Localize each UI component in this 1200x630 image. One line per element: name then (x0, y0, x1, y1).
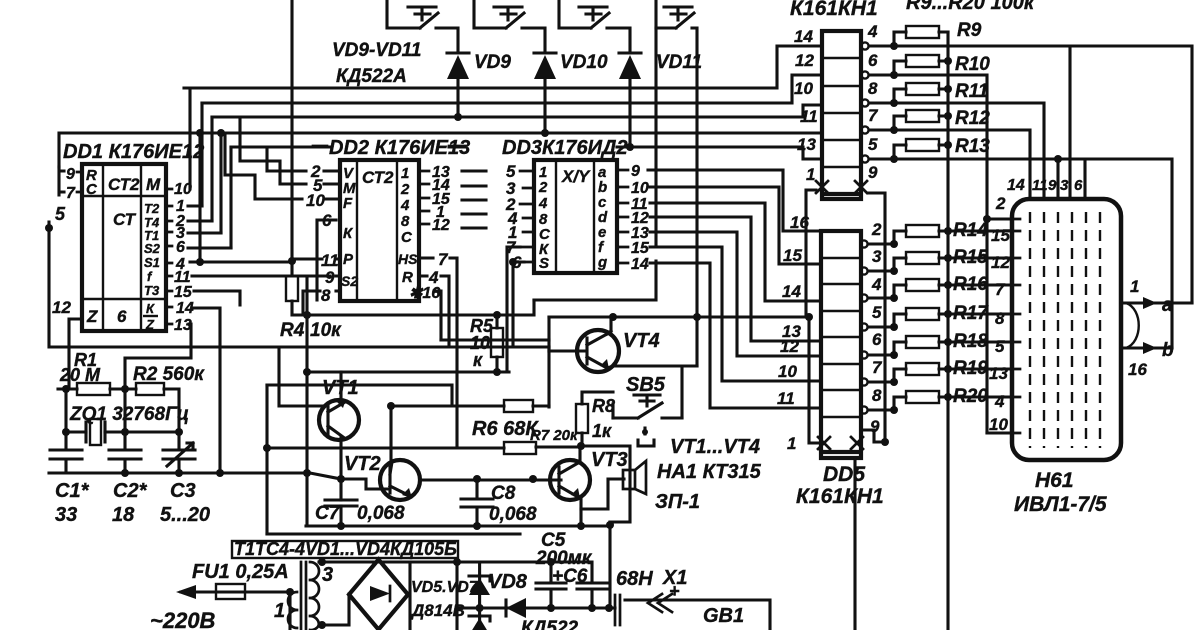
svg-text:S2: S2 (144, 241, 161, 256)
svg-text:12: 12 (795, 51, 814, 70)
svg-text:М: М (146, 175, 161, 194)
svg-text:8: 8 (872, 386, 882, 405)
svg-text:К161КН1: К161КН1 (796, 485, 884, 508)
svg-text:R13: R13 (955, 136, 990, 157)
svg-text:T2: T2 (144, 201, 160, 216)
svg-text:VT3: VT3 (591, 449, 628, 471)
svg-text:НА1 КТ315: НА1 КТ315 (657, 461, 762, 483)
svg-text:R10: R10 (955, 54, 990, 75)
svg-text:Н61: Н61 (1035, 469, 1074, 492)
svg-text:СТ2: СТ2 (108, 175, 140, 194)
svg-text:VD8: VD8 (488, 571, 528, 593)
svg-text:КД522А: КД522А (336, 66, 407, 87)
svg-text:12: 12 (52, 298, 71, 317)
svg-text:18: 18 (112, 504, 135, 526)
svg-text:13: 13 (797, 135, 816, 154)
svg-text:5: 5 (868, 135, 878, 154)
svg-text:11: 11 (777, 389, 795, 408)
svg-text:5...20: 5...20 (160, 504, 210, 526)
svg-text:6: 6 (1074, 177, 1083, 194)
svg-text:R: R (402, 269, 413, 286)
svg-text:R14: R14 (953, 220, 988, 241)
svg-text:3: 3 (1060, 177, 1069, 194)
svg-text:к: к (473, 350, 483, 370)
svg-text:С8: С8 (491, 483, 516, 504)
svg-text:10: 10 (794, 79, 813, 98)
svg-text:16: 16 (1128, 360, 1147, 379)
svg-text:10: 10 (631, 180, 649, 197)
svg-text:5: 5 (872, 303, 882, 322)
svg-text:9: 9 (868, 163, 878, 182)
svg-text:3: 3 (872, 247, 882, 266)
svg-text:7: 7 (438, 250, 449, 269)
svg-text:Т1ТС4-4VD1...VD4КД105Б: Т1ТС4-4VD1...VD4КД105Б (234, 539, 457, 559)
svg-text:14: 14 (782, 282, 801, 301)
svg-text:4: 4 (538, 195, 548, 212)
svg-text:10: 10 (778, 362, 797, 381)
svg-text:9: 9 (66, 166, 75, 183)
svg-text:15: 15 (174, 284, 193, 301)
svg-text:C: C (401, 229, 413, 246)
svg-text:10к: 10к (310, 320, 342, 341)
svg-text:~220В: ~220В (150, 608, 216, 630)
svg-text:0,068: 0,068 (489, 504, 537, 525)
svg-text:a: a (1162, 295, 1173, 316)
svg-text:SB5: SB5 (626, 374, 666, 396)
svg-text:VD10: VD10 (560, 52, 608, 73)
svg-text:ИВЛ1-7/5: ИВЛ1-7/5 (1014, 493, 1107, 516)
svg-text:g: g (597, 254, 607, 271)
svg-text:10: 10 (989, 415, 1008, 434)
svg-text:R7 20к: R7 20к (530, 427, 579, 444)
svg-text:7: 7 (66, 185, 76, 202)
svg-text:12: 12 (432, 217, 450, 234)
svg-text:11: 11 (1032, 177, 1048, 194)
svg-text:VD9: VD9 (474, 52, 511, 73)
svg-text:С7: С7 (315, 503, 341, 524)
svg-text:СТ2: СТ2 (362, 168, 394, 187)
svg-text:15: 15 (783, 246, 802, 265)
svg-text:К: К (146, 301, 155, 316)
svg-text:9: 9 (325, 268, 335, 287)
svg-text:T3: T3 (144, 283, 160, 298)
svg-text:4: 4 (994, 392, 1005, 411)
svg-text:7: 7 (872, 358, 883, 377)
svg-text:9: 9 (1048, 177, 1057, 194)
svg-text:6: 6 (176, 239, 185, 256)
svg-text:5: 5 (995, 337, 1005, 356)
svg-text:С1*: С1* (55, 480, 90, 502)
svg-text:КД522: КД522 (521, 618, 579, 630)
svg-text:R9...R20 100к: R9...R20 100к (906, 0, 1035, 14)
svg-text:HS: HS (398, 251, 418, 267)
svg-text:GB1: GB1 (703, 605, 744, 627)
svg-text:R15: R15 (953, 247, 988, 268)
svg-text:1: 1 (787, 434, 796, 453)
svg-text:6: 6 (868, 51, 878, 70)
svg-text:✱16: ✱16 (409, 285, 440, 302)
svg-text:1: 1 (401, 165, 409, 182)
svg-text:b: b (1162, 340, 1174, 361)
svg-text:12: 12 (780, 337, 799, 356)
svg-text:6: 6 (872, 330, 882, 349)
svg-text:9: 9 (631, 163, 640, 180)
svg-text:33: 33 (55, 504, 77, 526)
svg-text:DD5: DD5 (823, 463, 865, 486)
svg-text:15: 15 (631, 240, 650, 257)
svg-text:2: 2 (871, 220, 882, 239)
svg-text:DD1 К176ИЕ12: DD1 К176ИЕ12 (63, 141, 204, 163)
svg-text:3: 3 (322, 564, 333, 586)
svg-text:S1: S1 (144, 255, 160, 270)
svg-text:VD9-VD11: VD9-VD11 (332, 40, 421, 61)
svg-text:VT1...VT4: VT1...VT4 (670, 436, 760, 458)
svg-text:R12: R12 (955, 108, 990, 129)
svg-text:2: 2 (400, 181, 410, 198)
svg-text:Р: Р (343, 251, 354, 268)
svg-text:1: 1 (1130, 277, 1139, 296)
svg-text:68Н: 68Н (616, 568, 653, 590)
svg-text:7: 7 (995, 280, 1006, 299)
svg-text:2: 2 (538, 179, 548, 196)
svg-text:8: 8 (321, 286, 331, 305)
svg-text:R18: R18 (953, 331, 988, 352)
svg-text:VT2: VT2 (344, 453, 381, 475)
svg-text:S: S (539, 255, 549, 272)
svg-text:DD3К176ИД2: DD3К176ИД2 (502, 137, 628, 159)
svg-text:13: 13 (989, 364, 1008, 383)
svg-text:R17: R17 (953, 303, 989, 324)
svg-text:11: 11 (800, 107, 818, 126)
svg-text:1: 1 (274, 600, 285, 622)
svg-text:10: 10 (306, 191, 325, 210)
svg-text:+: + (669, 581, 680, 601)
svg-text:С2*: С2* (113, 480, 148, 502)
svg-text:VD5.VD7: VD5.VD7 (411, 579, 479, 596)
svg-text:СТ: СТ (113, 210, 137, 229)
svg-text:VD11: VD11 (656, 52, 702, 73)
svg-text:F: F (343, 195, 353, 212)
svg-text:С3: С3 (170, 480, 196, 502)
svg-text:S2: S2 (341, 273, 358, 289)
svg-text:R4: R4 (280, 320, 305, 341)
svg-text:R11: R11 (955, 81, 988, 102)
svg-text:8: 8 (401, 213, 410, 230)
svg-text:15: 15 (991, 226, 1010, 245)
svg-text:2: 2 (995, 194, 1006, 213)
svg-text:4: 4 (867, 22, 878, 41)
svg-text:К161КН1: К161КН1 (790, 0, 878, 20)
svg-text:Д814В: Д814В (410, 601, 465, 620)
svg-text:X/Y: X/Y (561, 167, 591, 186)
svg-text:R19: R19 (953, 358, 988, 379)
svg-text:1к: 1к (592, 421, 612, 441)
svg-text:0,068: 0,068 (357, 503, 405, 524)
svg-text:14: 14 (1007, 177, 1025, 194)
svg-text:6: 6 (117, 307, 127, 326)
svg-text:C: C (86, 181, 98, 198)
svg-text:8: 8 (995, 309, 1005, 328)
svg-text:ЗП-1: ЗП-1 (655, 491, 700, 513)
svg-text:R20: R20 (953, 386, 988, 407)
svg-text:4: 4 (871, 275, 882, 294)
svg-text:VT4: VT4 (623, 330, 660, 352)
svg-text:8: 8 (868, 79, 878, 98)
svg-text:R16: R16 (953, 274, 988, 295)
svg-text:DD2 К176ИЕ13: DD2 К176ИЕ13 (329, 137, 470, 159)
svg-text:7: 7 (868, 106, 879, 125)
svg-text:14: 14 (794, 27, 813, 46)
svg-text:R8: R8 (592, 396, 615, 416)
svg-text:4: 4 (400, 197, 410, 214)
svg-text:1: 1 (806, 165, 815, 184)
svg-text:14: 14 (631, 256, 649, 273)
svg-text:12: 12 (991, 253, 1010, 272)
svg-text:FU1 0,25А: FU1 0,25А (192, 561, 289, 583)
svg-text:R9: R9 (957, 20, 982, 41)
svg-text:Z: Z (86, 307, 98, 326)
svg-text:16: 16 (790, 213, 809, 232)
svg-text:Z: Z (145, 317, 155, 332)
svg-text:5: 5 (55, 204, 66, 224)
